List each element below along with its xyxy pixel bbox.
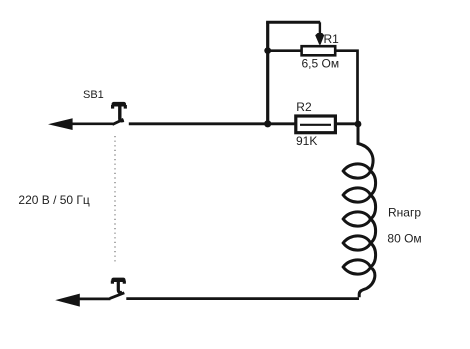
dotted link line between switches bbox=[114, 136, 116, 262]
wire (R1 right lead and right vertical) bbox=[336, 51, 358, 124]
svg-text:6,5 Ом: 6,5 Ом bbox=[302, 57, 340, 71]
pushbutton switch SB1 bbox=[112, 104, 125, 124]
wire (dash inside R2) bbox=[300, 124, 331, 126]
svg-text:R2: R2 bbox=[296, 100, 312, 114]
rheostat wiper arrow bbox=[315, 22, 324, 45]
wire (left vertical of rheostat loop) bbox=[266, 22, 269, 124]
resistor R2 bbox=[296, 116, 336, 133]
pushbutton switch (bottom) bbox=[110, 280, 125, 299]
wire (top of rheostat loop) bbox=[266, 21, 320, 24]
svg-text:R1: R1 bbox=[324, 32, 340, 46]
svg-text:SB1: SB1 bbox=[83, 89, 104, 101]
svg-text:91K: 91K bbox=[296, 134, 317, 148]
wire (bottom horizontal) bbox=[126, 297, 359, 300]
junction node (left, vertical branch) bbox=[264, 120, 271, 127]
svg-text:Rнагр: Rнагр bbox=[388, 206, 421, 220]
arrow (top supply terminal) bbox=[48, 118, 113, 130]
svg-text:80 Ом: 80 Ом bbox=[387, 232, 421, 246]
svg-text:220 В / 50 Гц: 220 В / 50 Гц bbox=[18, 193, 90, 207]
junction node (right) bbox=[355, 121, 362, 128]
resistor R1 bbox=[302, 46, 336, 55]
inductor Rнагр coil bbox=[343, 124, 375, 297]
wire (switch to R2, main horizontal) bbox=[129, 122, 357, 125]
wire (R1 left lead) bbox=[269, 49, 301, 52]
arrow (bottom supply terminal) bbox=[55, 294, 110, 307]
junction node (R1 left lead on vertical wire) bbox=[264, 47, 271, 54]
